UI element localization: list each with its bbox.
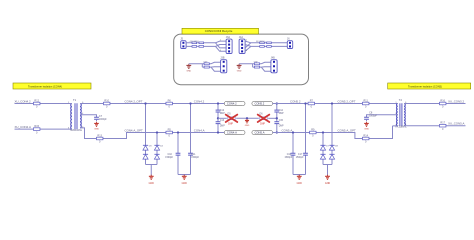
- wire mid row left: [218, 117, 227, 119]
- svg-text:CON5.2_OPT: CON5.2_OPT: [338, 99, 356, 103]
- global label CON5.A: [252, 130, 273, 135]
- wire T1 center tap: [80, 115, 97, 118]
- suppressor D6: [260, 117, 267, 120]
- resistor RA5: [260, 42, 265, 44]
- wire D8 branch: [331, 104, 333, 165]
- svg-text:CON4.2: CON4.2: [194, 99, 205, 103]
- wire diode join right: [323, 165, 332, 176]
- ground group3: [186, 64, 191, 73]
- wire T2 left pins: [393, 104, 398, 126]
- title box CONU/CONI Recycle: [182, 28, 259, 34]
- wire mid row right: [268, 117, 277, 119]
- junction v1 mid: [217, 117, 219, 119]
- wire gnd to comps g3: [189, 62, 221, 71]
- transformer T1: [70, 98, 83, 132]
- svg-text:GND: GND: [186, 71, 191, 73]
- svg-text:1: 1: [68, 102, 69, 104]
- connector J4B: [271, 57, 278, 73]
- resistor RB1: [204, 63, 209, 65]
- svg-text:CON4.A: CON4.A: [227, 131, 237, 135]
- diode D4a: [154, 145, 159, 150]
- diode D4b: [154, 154, 159, 159]
- svg-text:CON4.2: CON4.2: [227, 102, 237, 106]
- wire output CON5.A: [404, 125, 466, 127]
- svg-text:CON5.A: CON5.A: [255, 131, 265, 135]
- diode D8b: [329, 154, 334, 159]
- connector J3A: [226, 36, 232, 54]
- junction v1 bottom: [217, 131, 219, 133]
- capacitor C13: [216, 122, 221, 124]
- ground caps right: [297, 175, 303, 185]
- wire C16 branch: [292, 133, 294, 175]
- svg-text:R10: R10: [104, 99, 109, 102]
- svg-text:GND: GND: [325, 182, 331, 185]
- svg-text:DNP: DNP: [228, 123, 233, 125]
- svg-text:XU_CON5.2: XU_CON5.2: [448, 99, 464, 103]
- resistor R15: [33, 125, 40, 134]
- resistor R5: [166, 128, 173, 137]
- svg-text:1500pF: 1500pF: [296, 157, 304, 159]
- svg-text:R15: R15: [34, 125, 39, 128]
- junction v1 top: [217, 102, 219, 104]
- resistor RA1: [192, 42, 197, 44]
- global label CON4.2: [224, 101, 245, 106]
- title box transformer isolation CON4: [13, 83, 91, 89]
- wire cap join right: [293, 175, 306, 176]
- svg-text:CON5.A_OPT: CON5.A_OPT: [338, 128, 357, 132]
- wire vertical C12 C13: [217, 104, 219, 133]
- svg-text:R12: R12: [34, 99, 39, 102]
- global label CON4.A: [224, 130, 245, 135]
- resistor RA8: [267, 46, 272, 48]
- capacitor C17: [303, 153, 308, 155]
- svg-text:GND: GND: [149, 182, 155, 185]
- svg-text:GND: GND: [297, 182, 303, 185]
- diode D3a: [143, 145, 148, 150]
- svg-text:XU_CON5.A: XU_CON5.A: [448, 122, 464, 126]
- wire C17 branch: [305, 104, 307, 175]
- svg-text:C15: C15: [279, 120, 284, 122]
- svg-text:T1: T1: [73, 98, 77, 102]
- svg-text:DNP: DNP: [220, 126, 225, 128]
- junction mid gnd: [246, 117, 248, 119]
- svg-text:Transformer isolation (CON4): Transformer isolation (CON4): [28, 84, 62, 88]
- capacitor C10: [176, 153, 181, 155]
- resistor RA2: [199, 42, 204, 44]
- svg-text:R17: R17: [440, 122, 445, 125]
- resistor RA6: [267, 42, 272, 44]
- svg-text:CONU/CONI Recycle: CONU/CONI Recycle: [205, 29, 233, 33]
- svg-text:R16: R16: [440, 99, 445, 102]
- svg-text:C12: C12: [220, 110, 225, 112]
- svg-text:CON4.2_OPT: CON4.2_OPT: [125, 99, 143, 103]
- connector J5: [180, 38, 186, 49]
- resistor RA4: [199, 46, 204, 48]
- wire cap join left: [178, 175, 191, 176]
- wire C7 to gnd: [96, 119, 98, 121]
- ground diodes left: [149, 175, 155, 185]
- capacitor C16: [291, 153, 296, 155]
- svg-text:DNP: DNP: [279, 113, 284, 115]
- junction D3 top: [144, 102, 146, 104]
- wire T1 left pins: [71, 104, 72, 130]
- svg-text:DNP: DNP: [220, 113, 225, 115]
- wire top bus right: [273, 103, 397, 105]
- transformer T2: [395, 98, 407, 129]
- ground diodes right: [325, 175, 331, 185]
- wire C10 branch: [177, 133, 179, 175]
- ground caps left: [182, 175, 188, 185]
- svg-text:J3A: J3A: [226, 36, 231, 39]
- connector J3B: [220, 57, 227, 73]
- diode D7b: [320, 154, 325, 159]
- junction C17 top: [304, 102, 306, 104]
- svg-text:1: 1: [246, 40, 247, 42]
- wire input CON4.2: [15, 103, 71, 105]
- resistor R17: [439, 122, 446, 131]
- svg-text:J3B: J3B: [220, 57, 225, 60]
- svg-text:GND: GND: [94, 128, 99, 130]
- diode D8a: [329, 145, 334, 150]
- capacitor C11: [188, 153, 193, 155]
- svg-text:C13: C13: [220, 120, 225, 122]
- svg-text:4: 4: [220, 50, 221, 52]
- svg-text:1: 1: [220, 40, 221, 42]
- svg-text:CON5.2: CON5.2: [290, 99, 301, 103]
- svg-text:GND: GND: [364, 128, 369, 130]
- svg-text:1500pF: 1500pF: [191, 157, 199, 159]
- junction D8 top: [331, 102, 333, 104]
- resistor R6: [166, 99, 173, 108]
- svg-text:B3 GND0 +: B3 GND0 +: [256, 41, 267, 43]
- capacitor C15: [274, 122, 279, 124]
- global label CON5.2: [252, 101, 273, 106]
- suppressor D5: [228, 117, 235, 120]
- resistor R7: [308, 99, 315, 108]
- svg-text:1: 1: [396, 102, 397, 104]
- resistor R14: [362, 134, 369, 143]
- wire fanout from J4A: [245, 41, 287, 51]
- svg-text:J4A: J4A: [239, 36, 244, 39]
- junction C11 top: [189, 102, 191, 104]
- ground C7: [94, 122, 99, 131]
- resistor R13: [96, 134, 103, 143]
- svg-text:+ B3 GND0: + B3 GND0: [189, 41, 200, 43]
- svg-text:C14: C14: [279, 110, 284, 112]
- resistor RA7: [260, 46, 265, 48]
- svg-text:GND: GND: [245, 125, 250, 127]
- DNP cross D6: [258, 115, 270, 122]
- svg-text:CON4.A: CON4.A: [194, 128, 205, 132]
- svg-text:1500pF: 1500pF: [285, 157, 293, 159]
- frame CONU/CONI recycle box: [174, 34, 309, 85]
- svg-text:CON5.A: CON5.A: [282, 128, 293, 132]
- junction v2 top: [276, 102, 278, 104]
- ground mid: [245, 119, 250, 127]
- svg-text:1000pF: 1000pF: [369, 116, 377, 118]
- wire fanout to J3A: [216, 41, 227, 51]
- diode D3b: [143, 154, 148, 159]
- capacitor C14: [274, 110, 279, 112]
- svg-text:C10: C10: [168, 153, 173, 156]
- svg-text:R11: R11: [363, 99, 368, 102]
- wire mid row center: [236, 117, 259, 119]
- capacitor C8: [364, 117, 369, 119]
- wire output CON5.2: [404, 103, 466, 105]
- ground C8: [364, 122, 369, 131]
- resistor R11: [362, 99, 369, 108]
- resistor RB2: [204, 66, 209, 68]
- junction D7 top: [322, 131, 324, 133]
- svg-text:T2: T2: [399, 98, 403, 102]
- svg-text:C17: C17: [298, 153, 303, 156]
- capacitor C7: [94, 117, 99, 119]
- svg-text:4: 4: [246, 50, 247, 52]
- wire T1 right top out: [80, 103, 224, 105]
- svg-text:R13: R13: [97, 134, 102, 137]
- wire C11 branch: [190, 104, 192, 175]
- resistor R12: [33, 99, 40, 108]
- ground group4: [237, 64, 242, 73]
- wire D7 branch: [322, 133, 324, 165]
- wire vertical C14 C15: [276, 104, 278, 133]
- resistor R9: [310, 128, 317, 137]
- resistor RB4: [254, 66, 259, 68]
- connector J4A: [239, 36, 245, 54]
- wire D4 branch: [156, 133, 158, 165]
- svg-text:CON5.2: CON5.2: [255, 102, 265, 106]
- diode D7a: [320, 145, 325, 150]
- svg-text:Transformer isolation (CON5): Transformer isolation (CON5): [408, 84, 442, 88]
- wire J5 pins to pair bus: [186, 43, 215, 47]
- wire bottom bus right: [273, 126, 393, 139]
- junction C10 top: [177, 131, 179, 133]
- svg-text:GND: GND: [182, 182, 188, 185]
- wire T2 center tap: [367, 115, 398, 118]
- svg-text:1000pF: 1000pF: [99, 119, 107, 121]
- title box transformer isolation CON5: [388, 83, 471, 89]
- wire input CON4.A: [15, 128, 71, 130]
- svg-text:GND: GND: [237, 71, 242, 73]
- capacitor C12: [216, 110, 221, 112]
- svg-text:DNP: DNP: [260, 123, 265, 125]
- wire gnd to comps g4: [239, 62, 271, 71]
- wire C8 to gnd: [366, 119, 368, 121]
- svg-text:C11: C11: [191, 153, 196, 156]
- DNP cross D5: [226, 115, 238, 122]
- svg-text:CON4.A_OPT: CON4.A_OPT: [125, 128, 144, 132]
- svg-text:3: 3: [68, 128, 69, 130]
- resistor RB3: [254, 63, 259, 65]
- junction D4 top: [156, 131, 158, 133]
- resistor R10: [103, 99, 110, 108]
- connector J6: [287, 38, 293, 49]
- svg-text:1500pF: 1500pF: [165, 157, 173, 159]
- svg-text:J4B: J4B: [271, 57, 276, 60]
- wire T1 bottom out: [80, 128, 224, 139]
- resistor RA3: [192, 46, 197, 48]
- junction v2 bottom: [276, 131, 278, 133]
- resistor R16: [439, 99, 446, 108]
- svg-text:R14: R14: [363, 134, 368, 137]
- wire D3 branch: [145, 104, 147, 165]
- svg-text:XU_CON4.2: XU_CON4.2: [15, 99, 31, 103]
- junction C16 top: [292, 131, 294, 133]
- svg-text:XU_CON4.A: XU_CON4.A: [15, 125, 31, 129]
- junction v2 mid: [276, 117, 278, 119]
- wire diode join left: [146, 165, 158, 176]
